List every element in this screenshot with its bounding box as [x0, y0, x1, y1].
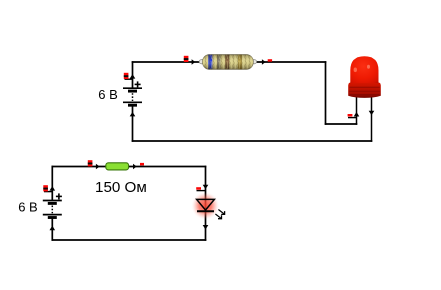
light emission arrow 1 of LED D2 — [218, 210, 224, 215]
LED D1 (red LED, pictorial) — [348, 56, 381, 98]
wire: jog horizontal to LED left leg — [325, 123, 358, 125]
svg-text:6 В: 6 В — [98, 87, 118, 102]
light emission arrow 2 of LED D2 — [215, 214, 221, 219]
current arrow up on battery B2 top lead — [50, 186, 56, 191]
probe marker above LED D2 — [196, 187, 205, 190]
current arrow down below LED D2 — [203, 225, 209, 230]
battery B1 — [123, 81, 142, 105]
wire: bottom horizontal return — [132, 140, 373, 142]
current arrow right after resistor R1 — [262, 59, 266, 64]
svg-text:150 Ом: 150 Ом — [95, 179, 147, 196]
wire: battery B2 bottom lead — [51, 217, 53, 241]
resistor R1 (colour-band resistor) — [199, 55, 256, 70]
wire: battery B2 top lead — [51, 166, 53, 201]
current arrow up on battery B1 top lead — [130, 74, 136, 79]
wire: right vertical through LED D2 — [205, 166, 207, 241]
probe marker on top wire before resistor R1 — [184, 56, 189, 62]
wire: battery B1 top lead — [132, 61, 134, 88]
probe marker after resistor R1 — [268, 59, 272, 62]
probe marker on bottom-loop top wire — [88, 160, 93, 166]
current arrow down on LED D1 right leg — [369, 111, 375, 116]
current arrow right after resistor R2 — [133, 164, 137, 169]
probe marker at LED D1 left leg — [348, 114, 357, 118]
wire: right vertical down — [325, 61, 327, 125]
wire: top horizontal of bottom loop — [52, 166, 207, 168]
battery B2 — [43, 193, 62, 217]
probe marker after resistor R2 — [140, 163, 144, 166]
current arrow up below battery B2 — [50, 226, 56, 231]
wire: bottom horizontal of bottom loop — [52, 239, 207, 241]
resistor R2 (box symbol, 150 Ом) — [106, 163, 129, 170]
current arrow right before resistor R1 — [192, 59, 196, 64]
LED D2 (diode symbol) — [197, 199, 215, 211]
wire: top horizontal from battery B1 to right corner — [132, 61, 327, 63]
probe marker at battery B2 plus terminal — [43, 185, 52, 191]
wire: battery B1 bottom lead — [132, 105, 134, 142]
probe marker at battery B1 plus terminal — [124, 73, 133, 79]
current arrow down above LED D2 — [203, 185, 209, 190]
current arrow up below battery B1 — [130, 112, 136, 117]
wire: LED D1 right leg down — [371, 93, 373, 142]
svg-text:6 В: 6 В — [18, 199, 38, 214]
current arrow right before resistor R2 — [96, 164, 100, 169]
LED D2 glow — [192, 192, 220, 220]
wire: LED D1 left leg — [356, 93, 358, 125]
current arrow up on LED D1 left leg — [354, 112, 360, 117]
